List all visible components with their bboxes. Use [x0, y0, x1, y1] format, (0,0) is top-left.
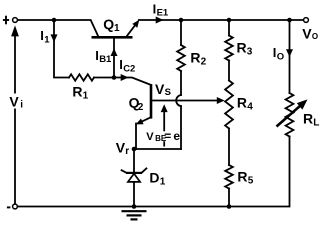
source arrow Vi (input voltage) [14, 33, 16, 204]
svg-text:R: R [72, 84, 82, 100]
wire: top input rail + Q1 collector diagonal [18, 20, 99, 36]
wire: R1 to base node [94, 77, 114, 79]
wire: Q1 emitter rail to output [139, 19, 304, 21]
node: output VO junction [287, 18, 292, 23]
svg-text:O: O [277, 51, 284, 62]
svg-text:3: 3 [247, 47, 253, 58]
svg-text:1: 1 [83, 91, 89, 102]
wire: VO down to RL [289, 20, 291, 93]
svg-text:R: R [190, 49, 200, 65]
current arrow I1 [51, 34, 58, 42]
svg-text:O: O [312, 32, 318, 41]
svg-text:e: e [173, 129, 180, 143]
potentiometer R4 [225, 81, 233, 129]
node: I1 branch junction on top rail [52, 18, 57, 23]
wire: R5 to ground rail [228, 189, 230, 207]
wire: Q2 emitter to Vr node [139, 117, 151, 123]
svg-text:V: V [146, 131, 154, 143]
resistor R1 [69, 74, 94, 80]
current arrow IC2 [121, 74, 129, 81]
transistor Q1 (pass transistor) [92, 36, 133, 39]
svg-text:1: 1 [44, 34, 50, 45]
ground symbol [122, 210, 147, 212]
wire: IC2 node to Q2 collector [114, 78, 151, 85]
svg-text:R: R [237, 169, 247, 185]
svg-text:5: 5 [248, 176, 254, 187]
svg-text:V: V [9, 93, 19, 109]
node: R2 top junction [179, 18, 184, 23]
current arrow IE1 [156, 17, 164, 24]
svg-text:2: 2 [201, 56, 207, 67]
resistor R5 [225, 165, 233, 189]
current arrow IO [286, 49, 293, 57]
node: ground junction [132, 204, 137, 209]
node: R3 top junction [227, 18, 232, 23]
wire: VS base wire to R4 wiper (crosses R2 drop, no connection) [152, 100, 218, 102]
svg-text:S: S [165, 87, 171, 98]
measurement arrow VBE=e [163, 110, 165, 131]
svg-text:1: 1 [114, 23, 120, 34]
wire: R4 to R5 [228, 129, 230, 166]
load resistor RL (variable) [286, 93, 294, 137]
svg-text:D: D [149, 169, 159, 185]
svg-text:r: r [125, 146, 129, 157]
node Vr junction [132, 147, 137, 152]
current arrow IB1 [111, 48, 118, 56]
resistor R2 [180, 20, 182, 45]
svg-text:C2: C2 [123, 63, 135, 74]
svg-text:R: R [237, 94, 247, 110]
svg-text:L: L [313, 118, 319, 129]
wire: Q1 base down to node [113, 38, 115, 78]
svg-text:V: V [302, 26, 312, 42]
svg-text:=: = [164, 129, 171, 143]
wire: bottom ground rail [18, 137, 290, 207]
zener diode D1 [133, 149, 135, 172]
svg-text:2: 2 [138, 102, 144, 113]
svg-text:E1: E1 [157, 8, 169, 19]
svg-text:V: V [155, 81, 165, 97]
wire: R2 bottom drop to Vr line (loop hop over VS wire) [180, 71, 182, 95]
svg-text:R: R [237, 40, 247, 56]
resistor R3 [228, 20, 230, 36]
svg-text:R: R [303, 111, 313, 127]
svg-text:4: 4 [247, 101, 253, 112]
terminal VO (output) [304, 18, 309, 23]
terminal - (input negative) [13, 204, 18, 209]
terminal + (input positive) [13, 18, 18, 23]
wire: R3 to R4 [228, 61, 230, 81]
node: R5 bottom junction [227, 204, 232, 209]
svg-text:i: i [20, 100, 23, 111]
wire: Vr line [134, 148, 181, 150]
svg-text:Q: Q [103, 16, 114, 32]
svg-text:1: 1 [160, 176, 166, 187]
wire: I1 branch down to R1 [54, 20, 69, 78]
node: R1 / Q1 base / Q2 collector junction [112, 75, 117, 80]
transistor Q2 (error amplifier) [150, 84, 153, 118]
svg-text:B1: B1 [99, 54, 112, 65]
